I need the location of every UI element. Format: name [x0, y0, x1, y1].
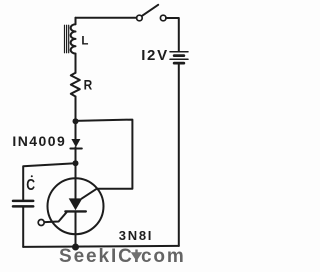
- svg-text:R: R: [84, 77, 93, 93]
- svg-text:C: C: [26, 177, 35, 194]
- svg-text:I2V: I2V: [141, 47, 169, 64]
- svg-text:L: L: [81, 36, 88, 48]
- svg-text:3N8I: 3N8I: [119, 228, 153, 243]
- svg-text:IN4009: IN4009: [12, 133, 66, 149]
